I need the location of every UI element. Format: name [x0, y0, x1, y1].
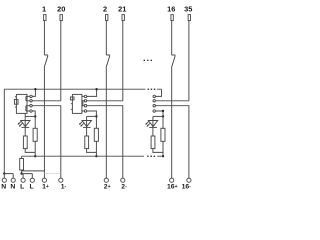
terminal 35 clamp — [188, 15, 190, 21]
wire R2a R2b merge — [87, 141, 97, 156]
wire switch S16 to terminal 16+ — [171, 68, 173, 178]
wire LED D2 to resistor R2a — [86, 127, 88, 136]
relay K2 contact bracket — [83, 101, 84, 106]
svg-text:16-: 16- — [182, 184, 192, 191]
ellipsis dots bottom bus — [147, 156, 155, 157]
LED D1 arrows — [18, 121, 23, 126]
wire switch S1 to terminal 1+ — [43, 68, 45, 178]
wire terminal 21 down — [122, 21, 124, 101]
resistor R16b — [161, 128, 165, 141]
svg-text:L: L — [20, 184, 24, 191]
relay K2 coil — [70, 97, 74, 109]
node K1 network junction — [34, 115, 36, 117]
svg-text:1: 1 — [42, 5, 46, 14]
terminal 1 clamp — [44, 15, 46, 21]
resistor R16a — [151, 136, 155, 149]
wire K16 pin4 to network — [155, 111, 163, 128]
node K1 riser junction — [34, 88, 36, 90]
svg-text:2: 2 — [103, 5, 107, 14]
wire bus to resistor RC — [21, 156, 23, 158]
wire K2 pin3 to terminal 2- — [87, 106, 123, 178]
svg-text:16+: 16+ — [167, 184, 178, 191]
ellipsis dots top bus — [148, 89, 156, 90]
wire K2 pin4 to network — [87, 111, 97, 128]
terminal 1+ circle — [42, 178, 46, 182]
relay K1 coil — [14, 97, 18, 107]
relay K1 pin stubs — [26, 96, 30, 111]
svg-text:2+: 2+ — [104, 184, 111, 191]
relay K2 pin stubs — [82, 96, 84, 111]
svg-text:N: N — [10, 184, 15, 191]
wire LED D16 to resistor R16a — [152, 127, 154, 136]
top bus N line — [4, 88, 161, 90]
terminal 1- circle — [59, 178, 63, 182]
terminal 20 clamp — [60, 15, 62, 21]
wire terminal 1 down — [43, 21, 45, 56]
wire K16 pin2 to terminal 35 — [155, 100, 189, 102]
svg-text:N: N — [1, 184, 6, 191]
relay K2 pin circles — [84, 95, 86, 112]
contact switch S1 — [44, 55, 48, 68]
resistor RC — [20, 159, 24, 171]
wire RC to L junction — [21, 170, 23, 174]
relay K1 box — [16, 94, 27, 113]
svg-text:1-: 1- — [61, 184, 67, 191]
ellipsis dots omitted channel switches — [144, 60, 152, 61]
terminal N2 circle — [11, 178, 15, 182]
svg-text:2-: 2- — [121, 184, 127, 191]
relay K1 contact brackets — [25, 96, 27, 111]
wire K16 LED branch — [153, 115, 163, 117]
wire K2 pin1 riser to N bus — [87, 89, 97, 96]
node N jumper junction — [3, 172, 5, 174]
wire K16 pin3 to terminal 16- — [155, 106, 189, 178]
svg-text:1+: 1+ — [42, 184, 49, 191]
node K1 bus drop — [34, 155, 36, 157]
wire K16 riser from N bus — [155, 89, 161, 96]
svg-text:21: 21 — [118, 5, 126, 14]
terminal L2 circle — [30, 178, 34, 182]
LED D2 — [82, 116, 91, 127]
wire R1a R1b merge — [25, 141, 35, 156]
wire terminal 16 down — [171, 21, 173, 56]
node K2 bus drop — [95, 155, 97, 157]
wire RC branch right — [22, 170, 45, 172]
terminal 16 clamp — [171, 15, 173, 21]
resistor R2a — [85, 136, 89, 149]
node L jumper junction — [20, 172, 22, 174]
LED D16 — [148, 116, 157, 127]
resistor R1b — [33, 128, 37, 141]
wire K1 LED branch — [25, 115, 35, 117]
svg-text:35: 35 — [184, 5, 192, 14]
svg-text:16: 16 — [167, 5, 175, 14]
relay K2 box — [72, 94, 82, 113]
terminal L1 circle — [21, 178, 25, 182]
node K16 network junction — [162, 115, 164, 117]
node K16 pin4 junction — [162, 110, 164, 112]
resistor R2b — [94, 128, 98, 141]
left boundary N wire — [3, 89, 5, 173]
resistor R1a — [23, 136, 27, 149]
svg-text:20: 20 — [57, 5, 65, 14]
bottom bus L line — [22, 155, 163, 157]
wire K2 pin2 to terminal 21 — [87, 100, 123, 102]
terminal 16+ circle — [170, 178, 174, 182]
terminal N1 circle — [2, 178, 6, 182]
terminal 16- circle — [187, 178, 191, 182]
wire switch S2 to terminal 2+ — [105, 68, 107, 178]
relay K1 pin circles — [30, 95, 32, 112]
wire terminal 35 down — [188, 21, 190, 101]
relay K16 pin circles — [153, 95, 155, 112]
terminal 2- circle — [121, 178, 125, 182]
wire K1 pin2 to terminal 20 — [32, 100, 61, 102]
wire K2 LED branch — [87, 115, 97, 117]
wire K1 pin4 to network — [32, 111, 35, 128]
wire LED D1 to resistor R1a — [24, 127, 26, 136]
terminal 2+ circle — [104, 178, 108, 182]
terminal 2 clamp — [106, 15, 108, 21]
wire R16a R16b merge — [153, 141, 163, 156]
wire terminal 20 down — [60, 21, 62, 101]
wire L jumper — [22, 174, 33, 179]
LED D16 arrows — [145, 121, 150, 126]
faint boundary segment — [44, 173, 60, 175]
contact switch S2 — [106, 55, 110, 68]
node K2 riser junction — [95, 88, 97, 90]
node K2 network junction — [95, 115, 97, 117]
LED D1 — [21, 116, 30, 127]
contact switch S16 — [171, 55, 175, 68]
wire N jumper — [4, 174, 13, 179]
wire K1 box bottom lead — [24, 113, 26, 116]
wire terminal 2 down — [105, 21, 107, 56]
wire K1 pin1 riser to N bus — [32, 89, 35, 96]
wire K1 pin3 to terminal 1- — [32, 106, 61, 178]
terminal 21 clamp — [122, 15, 124, 21]
LED D2 arrows — [79, 121, 84, 126]
node K16 bus drop — [162, 155, 164, 157]
svg-text:L: L — [30, 184, 34, 191]
